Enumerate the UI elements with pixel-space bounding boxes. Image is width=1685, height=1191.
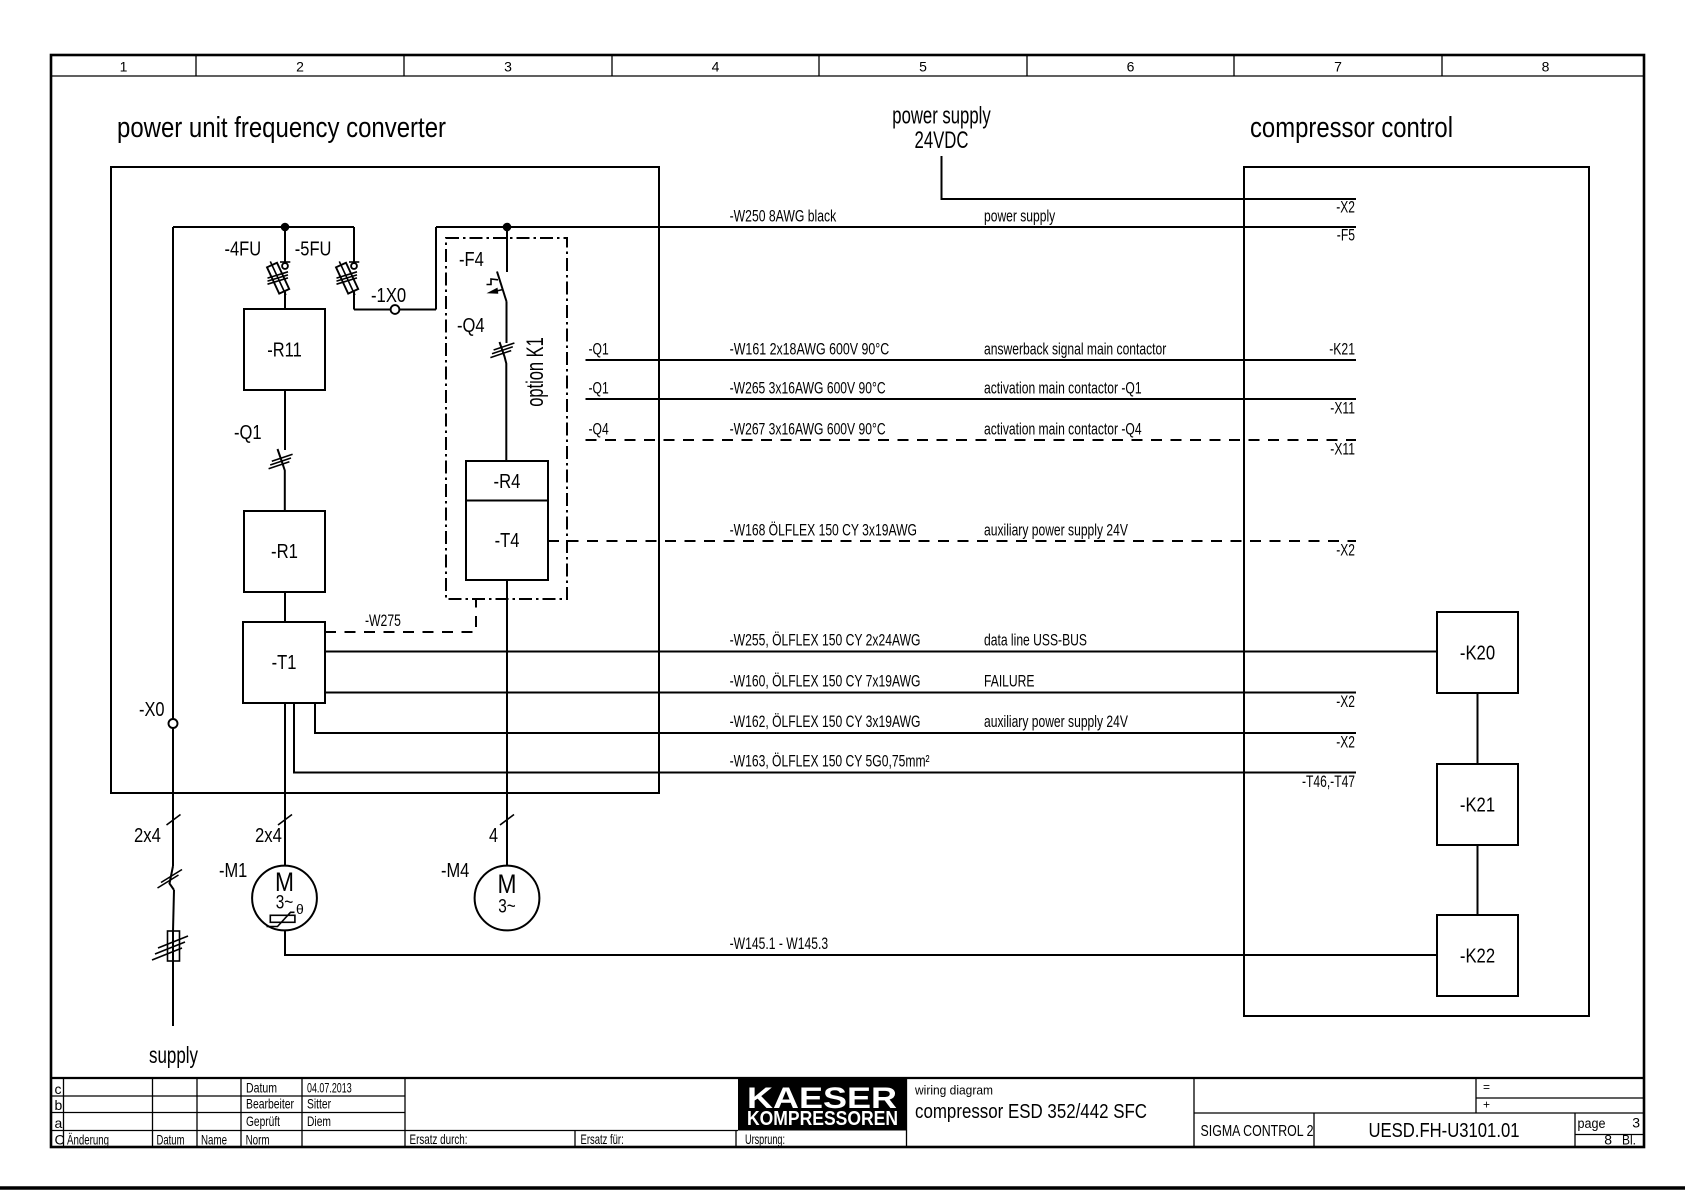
svg-text:-Q1: -Q1 xyxy=(589,379,609,398)
circuit breaker -F4 xyxy=(506,227,508,272)
svg-text:-R4: -R4 xyxy=(494,471,521,493)
svg-text:3: 3 xyxy=(504,59,512,75)
wire -W275 (dashed) xyxy=(325,599,476,632)
svg-text:-5FU: -5FU xyxy=(295,239,332,261)
svg-text:-X11: -X11 xyxy=(1330,440,1355,459)
svg-text:Änderung: Änderung xyxy=(67,1132,109,1148)
wire R1 to T1 xyxy=(284,592,286,622)
wire T1 to motor M1 xyxy=(284,703,286,866)
cable marker 2x4 on supply riser xyxy=(167,815,181,826)
svg-text:-W168 ÖLFLEX 150 CY 3x19AWG: -W168 ÖLFLEX 150 CY 3x19AWG xyxy=(730,521,917,540)
resistor block -R1 xyxy=(244,511,325,592)
svg-text:b: b xyxy=(55,1097,63,1113)
option K1 dash-dot boundary box xyxy=(446,238,567,599)
svg-text:-F4: -F4 xyxy=(459,249,484,271)
svg-text:a: a xyxy=(55,1115,63,1131)
contactor contact -Q4 xyxy=(506,302,508,344)
wire -W267 activation main contactor Q4 (dashed) xyxy=(586,439,1357,441)
svg-text:-M1: -M1 xyxy=(219,860,247,882)
svg-text:-X2: -X2 xyxy=(1336,733,1355,752)
svg-text:wiring diagram: wiring diagram xyxy=(914,1083,993,1098)
svg-text:Datum: Datum xyxy=(157,1132,185,1148)
wire -W163 xyxy=(294,703,1356,773)
relay block -K22 xyxy=(1437,915,1518,996)
svg-text:auxiliary power supply 24V: auxiliary power supply 24V xyxy=(984,712,1128,731)
svg-text:c: c xyxy=(55,1081,62,1097)
svg-text:-Q1: -Q1 xyxy=(589,340,609,359)
svg-text:Bearbeiter: Bearbeiter xyxy=(246,1096,294,1112)
svg-text:=: = xyxy=(1483,1080,1490,1094)
svg-text:-T1: -T1 xyxy=(272,652,297,674)
svg-text:-W275: -W275 xyxy=(365,611,401,630)
svg-text:power unit frequency converter: power unit frequency converter xyxy=(117,112,446,144)
svg-text:2: 2 xyxy=(296,59,304,75)
svg-text:Sitter: Sitter xyxy=(307,1096,331,1112)
svg-text:24VDC: 24VDC xyxy=(915,127,969,154)
svg-text:-4FU: -4FU xyxy=(225,239,262,261)
svg-text:activation main contactor -Q4: activation main contactor -Q4 xyxy=(984,420,1142,439)
svg-text:8: 8 xyxy=(1604,1132,1612,1148)
svg-text:Name: Name xyxy=(201,1132,227,1148)
svg-text:Ersatz für:: Ersatz für: xyxy=(581,1131,624,1147)
svg-text:2x4: 2x4 xyxy=(255,825,282,847)
supply cable symbol (rect with slashes) xyxy=(168,931,180,961)
svg-text:-K22: -K22 xyxy=(1460,946,1495,968)
svg-text:1: 1 xyxy=(120,59,128,75)
svg-text:compressor ESD 352/442 SFC: compressor ESD 352/442 SFC xyxy=(915,1101,1147,1123)
svg-text:-W161 2x18AWG 600V 90°C: -W161 2x18AWG 600V 90°C xyxy=(730,340,890,359)
svg-text:3~: 3~ xyxy=(276,893,294,914)
svg-text:6: 6 xyxy=(1127,59,1135,75)
junction node at -F4 tap xyxy=(503,223,512,232)
svg-text:04.07.2013: 04.07.2013 xyxy=(307,1080,352,1096)
svg-text:+: + xyxy=(1483,1098,1490,1112)
svg-text:-X2: -X2 xyxy=(1336,198,1355,217)
svg-text:-W145.1 - W145.3: -W145.1 - W145.3 xyxy=(730,934,829,953)
svg-text:Geprüft: Geprüft xyxy=(246,1113,280,1129)
svg-text:-R1: -R1 xyxy=(271,541,298,563)
svg-text:FAILURE: FAILURE xyxy=(984,672,1035,691)
terminal -1X0 xyxy=(354,309,391,311)
svg-text:supply: supply xyxy=(149,1042,198,1068)
svg-text:-F5: -F5 xyxy=(1337,226,1355,245)
svg-text:-W255, ÖLFLEX 150 CY 2x24AWG: -W255, ÖLFLEX 150 CY 2x24AWG xyxy=(730,631,921,650)
svg-text:-Q1: -Q1 xyxy=(234,422,262,444)
svg-text:-Q4: -Q4 xyxy=(589,420,609,439)
terminal -X0 xyxy=(169,719,178,728)
svg-text:-W250 8AWG black: -W250 8AWG black xyxy=(730,207,837,226)
svg-text:3: 3 xyxy=(1632,1115,1640,1131)
svg-text:-M4: -M4 xyxy=(441,860,469,882)
svg-text:data line USS-BUS: data line USS-BUS xyxy=(984,631,1087,650)
compressor control enclosure box xyxy=(1244,167,1589,1016)
fuse -5FU xyxy=(353,227,355,262)
cable marker 4 on motor M4 feeder xyxy=(500,815,514,826)
wire 24VDC power supply drop xyxy=(942,156,1357,199)
wire K20-K21 xyxy=(1477,693,1479,764)
svg-text:KOMPRESSOREN: KOMPRESSOREN xyxy=(747,1108,898,1130)
svg-text:-X0: -X0 xyxy=(139,699,165,721)
svg-text:4: 4 xyxy=(489,825,498,847)
wire K21-K22 xyxy=(1477,845,1479,915)
svg-text:compressor control: compressor control xyxy=(1250,112,1453,144)
svg-text:Diem: Diem xyxy=(307,1113,331,1129)
svg-text:-X2: -X2 xyxy=(1336,692,1355,711)
svg-text:-W162, ÖLFLEX 150 CY 3x19AWG: -W162, ÖLFLEX 150 CY 3x19AWG xyxy=(730,712,921,731)
wire -W161 answerback signal xyxy=(586,359,1357,361)
relay block -K20 xyxy=(1437,612,1518,693)
title block xyxy=(51,1077,1644,1079)
svg-text:Ursprung:: Ursprung: xyxy=(745,1131,785,1147)
svg-text:7: 7 xyxy=(1334,59,1342,75)
svg-text:option K1: option K1 xyxy=(522,337,549,407)
svg-text:C: C xyxy=(55,1132,65,1148)
block -R4 / -T4 xyxy=(466,461,548,580)
svg-text:-R11: -R11 xyxy=(267,340,302,362)
svg-text:Ersatz durch:: Ersatz durch: xyxy=(410,1131,468,1147)
svg-text:-W267 3x16AWG 600V 90°C: -W267 3x16AWG 600V 90°C xyxy=(730,420,886,439)
wire -W160 FAILURE xyxy=(325,692,1356,694)
svg-text:-K21: -K21 xyxy=(1329,340,1355,359)
svg-text:-1X0: -1X0 xyxy=(371,285,406,307)
svg-text:-Q4: -Q4 xyxy=(457,315,485,337)
wire -W145.1 - W145.3 motor cable xyxy=(285,930,1437,955)
resistor block -R11 xyxy=(244,309,325,390)
svg-text:-K20: -K20 xyxy=(1460,643,1495,665)
svg-text:4: 4 xyxy=(712,59,720,75)
svg-text:-W163, ÖLFLEX 150 CY 5G0,75mm²: -W163, ÖLFLEX 150 CY 5G0,75mm² xyxy=(730,752,930,771)
wire -W255 data line USS-BUS xyxy=(325,651,1437,653)
supply isolator contact on left riser xyxy=(170,866,175,890)
svg-text:SIGMA CONTROL 2: SIGMA CONTROL 2 xyxy=(1201,1123,1314,1140)
svg-text:θ: θ xyxy=(296,901,304,917)
wire -W162 auxiliary power supply xyxy=(315,703,1356,733)
svg-text:-W265 3x16AWG 600V 90°C: -W265 3x16AWG 600V 90°C xyxy=(730,379,886,398)
junction node at -4FU tap xyxy=(281,223,290,232)
svg-text:2x4: 2x4 xyxy=(134,825,161,847)
wire -W265 activation main contactor Q1 xyxy=(586,398,1357,400)
wire left supply riser x=173 xyxy=(172,227,174,866)
svg-text:-K21: -K21 xyxy=(1460,795,1495,817)
svg-text:activation main contactor -Q1: activation main contactor -Q1 xyxy=(984,379,1142,398)
svg-text:-X11: -X11 xyxy=(1330,399,1355,418)
svg-text:8: 8 xyxy=(1542,59,1550,75)
svg-text:Norm: Norm xyxy=(246,1132,270,1148)
wire T4 to motor M4 xyxy=(506,580,508,866)
cable marker 2x4 on motor M1 feeder xyxy=(278,815,292,826)
svg-text:auxiliary power supply 24V: auxiliary power supply 24V xyxy=(984,521,1128,540)
svg-text:3~: 3~ xyxy=(498,897,516,918)
KAESER KOMPRESSOREN logo xyxy=(738,1078,907,1131)
power unit frequency converter enclosure box xyxy=(111,167,659,793)
wire -W250 top bus (right segment) xyxy=(436,226,1356,228)
svg-text:-W160, ÖLFLEX 150 CY 7x19AWG: -W160, ÖLFLEX 150 CY 7x19AWG xyxy=(730,672,921,691)
wire -W250 top bus (left segment) xyxy=(173,226,354,228)
svg-text:-T46,-T47: -T46,-T47 xyxy=(1302,772,1355,791)
svg-text:-T4: -T4 xyxy=(495,530,520,552)
converter block -T1 xyxy=(243,622,325,703)
contactor contact -Q1 xyxy=(284,390,286,450)
svg-text:UESD.FH-U3101.01: UESD.FH-U3101.01 xyxy=(1369,1120,1520,1142)
svg-text:power supply: power supply xyxy=(892,103,991,130)
relay block -K21 xyxy=(1437,764,1518,845)
svg-text:Bl.: Bl. xyxy=(1622,1132,1636,1148)
svg-text:-X2: -X2 xyxy=(1336,541,1355,560)
svg-text:5: 5 xyxy=(919,59,927,75)
wire -W168 auxiliary power supply (dashed) xyxy=(548,540,1356,542)
svg-text:answerback signal main contact: answerback signal main contactor xyxy=(984,340,1167,359)
motor -M4 xyxy=(475,866,540,931)
svg-text:Datum: Datum xyxy=(246,1080,277,1096)
svg-text:M: M xyxy=(498,869,517,899)
svg-text:page: page xyxy=(1578,1116,1606,1131)
motor -M1 xyxy=(252,866,317,931)
svg-text:power supply: power supply xyxy=(984,207,1056,226)
fuse -4FU xyxy=(284,227,286,262)
